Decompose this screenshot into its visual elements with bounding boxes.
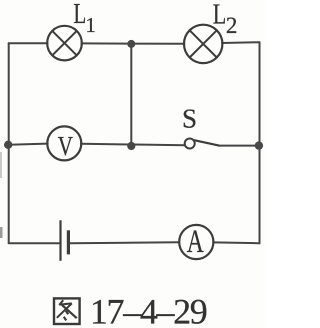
lamp L2	[184, 25, 222, 63]
wire top rail segment right of L2	[222, 41, 260, 44]
wire right rail	[259, 42, 261, 243]
scan smudge left edge upper	[0, 152, 2, 178]
caption figure label glyph tu	[54, 298, 80, 324]
svg-text:A: A	[187, 224, 204, 260]
label S	[182, 104, 197, 134]
svg-text:L: L	[213, 0, 227, 31]
caption figure number 17-4-29	[90, 291, 207, 328]
svg-text:V: V	[58, 130, 73, 161]
node top junction	[127, 40, 135, 48]
svg-text:S: S	[182, 104, 197, 134]
wire middle rail segment voltmeter to switch	[81, 144, 185, 145]
svg-text:L: L	[73, 0, 86, 30]
lamp L1	[47, 26, 82, 61]
battery cell	[61, 220, 69, 260]
wire middle rail segment switch to right rail	[219, 145, 260, 147]
switch S	[185, 139, 219, 149]
label L1	[73, 0, 96, 37]
svg-text:2: 2	[226, 13, 238, 38]
wire middle vertical branch	[130, 44, 132, 146]
node right middle junction	[255, 141, 263, 149]
voltmeter V	[47, 126, 81, 161]
ammeter A	[179, 224, 213, 260]
wire top rail segment L1 to L2	[82, 42, 185, 44]
wire left rail	[8, 43, 10, 243]
wire bottom rail segment left of battery	[9, 242, 60, 244]
wire bottom rail segment right of ammeter	[213, 241, 259, 244]
node left middle junction	[4, 141, 12, 149]
node middle junction	[127, 142, 135, 150]
wire middle rail segment left of voltmeter	[9, 144, 48, 145]
scan smudge left edge lower	[0, 227, 3, 238]
wire bottom rail segment battery to ammeter	[70, 241, 179, 244]
svg-text:1: 1	[85, 13, 96, 37]
label L2	[213, 0, 238, 38]
wire top rail segment left of L1	[9, 42, 48, 44]
svg-text:17–4–29: 17–4–29	[90, 291, 207, 328]
